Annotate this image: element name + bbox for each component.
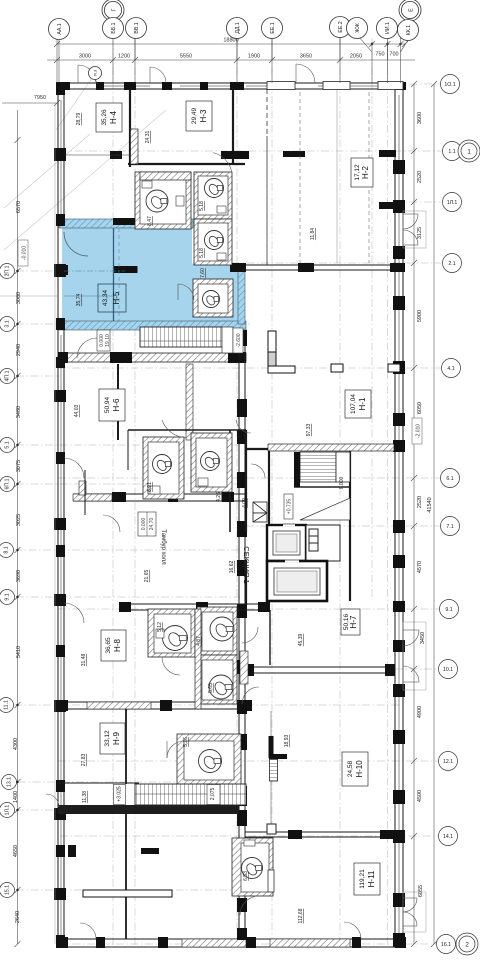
vertical grid axes (dash) [113, 38, 388, 945]
central spine wall x239-246 [239, 330, 245, 939]
svg-text:27,83: 27,83 [81, 754, 87, 767]
svg-text:11,38: 11,38 [82, 791, 88, 803]
svg-text:3480: 3480 [16, 406, 22, 418]
elevator 1 [267, 524, 306, 561]
svg-text:21,65: 21,65 [144, 570, 150, 583]
top total dimension line 18800 [47, 36, 415, 83]
svg-text:8,47: 8,47 [147, 216, 153, 226]
svg-text:Н-8: Н-8 [113, 639, 122, 652]
H-10/H-11 divider line [270, 711, 272, 826]
bathroom B2 [194, 172, 232, 219]
left axis bubbles [0, 264, 17, 898]
svg-text:700: 700 [389, 52, 398, 58]
svg-text:4,09: 4,09 [242, 498, 248, 508]
H-6 right hatched wall [186, 364, 193, 440]
elevation box 0.000 blue room [97, 330, 111, 351]
svg-text:2640: 2640 [15, 911, 21, 923]
svg-text:1Л.1: 1Л.1 [447, 200, 458, 206]
svg-text:ЕЕ.1: ЕЕ.1 [270, 22, 276, 33]
svg-text:ББ.1: ББ.1 [111, 22, 117, 33]
door arcs top wall [78, 64, 333, 83]
top segment dimension line [47, 59, 415, 61]
wall H-2 left boundary [266, 89, 268, 136]
elevation box -0.010 left [18, 240, 28, 266]
svg-text:5,12: 5,12 [157, 622, 163, 632]
H-11 top wall y835 [245, 832, 394, 837]
bathroom B4 in H-5 [178, 279, 233, 317]
room label H-11 [354, 863, 380, 895]
svg-text:3690: 3690 [16, 570, 22, 582]
svg-text:24,58: 24,58 [347, 760, 354, 777]
bathroom B8 [197, 607, 258, 655]
svg-text:28,79: 28,79 [76, 113, 82, 126]
svg-text:Н-1: Н-1 [358, 397, 367, 410]
svg-text:7950: 7950 [34, 95, 46, 101]
thick wall y810 [58, 805, 239, 814]
partition right of H-3 [232, 89, 234, 163]
corridor wall y509 [73, 494, 245, 501]
room label H-4 [96, 103, 122, 132]
svg-text:Н-5: Н-5 [112, 291, 121, 304]
svg-text:2940: 2940 [16, 344, 22, 356]
svg-text:3080: 3080 [16, 292, 22, 304]
svg-text:11,84: 11,84 [310, 228, 316, 240]
svg-text:0.000: 0.000 [141, 518, 147, 531]
right exterior wall [395, 83, 403, 947]
svg-text:7,60: 7,60 [200, 268, 206, 278]
door arcs interior corridor [86, 402, 265, 854]
top exterior wall [58, 83, 405, 89]
left 7950 dim [2, 100, 60, 106]
svg-text:5900: 5900 [417, 310, 423, 322]
H-9 left partition [125, 709, 127, 939]
svg-text:ЕЕ.2: ЕЕ.2 [338, 21, 344, 32]
svg-text:КК.1: КК.1 [406, 25, 412, 35]
svg-text:3000: 3000 [79, 54, 91, 60]
svg-text:Н-3: Н-3 [199, 109, 208, 122]
bathroom B10 [167, 734, 241, 786]
stair S1 [140, 327, 233, 353]
svg-text:3450: 3450 [420, 632, 426, 644]
svg-text:Н-2: Н-2 [361, 166, 370, 179]
svg-text:10.1: 10.1 [443, 667, 453, 673]
bottom exterior wall [58, 939, 405, 947]
svg-text:750: 750 [375, 52, 384, 58]
grid bubble Г (double) [102, 0, 124, 21]
vent shafts [253, 502, 267, 522]
room label H-8 [101, 630, 126, 661]
room label H-5 [64, 228, 126, 321]
svg-text:Н-7: Н-7 [349, 615, 358, 628]
H-6 left partition [117, 364, 119, 440]
bathroom B6 [191, 433, 232, 492]
wall y265 H-2 bottom / H-1 top [246, 265, 405, 270]
svg-text:6050: 6050 [417, 402, 423, 414]
svg-text:4500: 4500 [417, 790, 423, 802]
svg-text:44,03: 44,03 [74, 405, 80, 418]
svg-text:6,53: 6,53 [243, 871, 249, 881]
extension lines to wall [56, 64, 58, 83]
small area texts [74, 113, 345, 924]
svg-text:16.1: 16.1 [441, 942, 451, 948]
svg-text:5,65: 5,65 [208, 683, 214, 693]
elevation box 0.000/24,70 tambour [138, 512, 156, 536]
bathroom B11 [232, 838, 274, 915]
svg-text:6.1: 6.1 [446, 476, 453, 482]
svg-text:5.1: 5.1 [5, 441, 11, 448]
svg-text:4П.1: 4П.1 [5, 370, 11, 381]
svg-text:3650: 3650 [300, 54, 312, 60]
wall under stairs y358 [58, 353, 246, 362]
room label H-10 [342, 752, 368, 786]
svg-text:ДД.1: ДД.1 [235, 22, 241, 33]
kitchen counter H-1 [268, 331, 400, 373]
svg-text:1900: 1900 [248, 54, 260, 60]
svg-text:2520: 2520 [417, 496, 423, 508]
service room right of elevator 1 [306, 525, 340, 561]
svg-text:9.1: 9.1 [5, 593, 11, 600]
grid bubble Е (double) [399, 0, 421, 21]
misc stub walls blue room [55, 265, 68, 275]
svg-text:6055: 6055 [418, 885, 424, 897]
bottom wall piers [56, 937, 406, 948]
svg-text:11.1: 11.1 [4, 700, 10, 710]
svg-text:43,34: 43,34 [102, 289, 109, 306]
svg-text:Н-6: Н-6 [112, 398, 121, 411]
svg-text:-2.600: -2.600 [236, 333, 242, 347]
svg-text:6П.1: 6П.1 [5, 478, 11, 489]
svg-text:35,26: 35,26 [101, 109, 108, 126]
top wall piers [56, 82, 406, 90]
svg-text:107,04: 107,04 [350, 394, 357, 414]
svg-text:2050: 2050 [350, 54, 362, 60]
hatched wall segment above bathroom B1 [140, 172, 191, 180]
svg-text:5550: 5550 [180, 54, 192, 60]
svg-text:+0.735: +0.735 [287, 499, 293, 515]
room label H-3 [186, 101, 212, 131]
elevation box -2.010 right [412, 418, 422, 444]
door arc above B5 [160, 420, 188, 438]
stair S3 (core) [294, 452, 350, 520]
svg-text:50,16: 50,16 [343, 613, 350, 630]
hatched partition segment x131 [131, 129, 139, 164]
right axis bubbles [437, 75, 480, 956]
room label H-2 [351, 158, 373, 187]
svg-text:35,74: 35,74 [76, 294, 82, 307]
svg-text:119,21: 119,21 [359, 869, 366, 889]
svg-text:6,91: 6,91 [147, 482, 153, 492]
elevation box +0.735 [284, 494, 293, 519]
elevator 2 [267, 560, 327, 601]
svg-text:5,26: 5,26 [183, 737, 189, 747]
svg-text:7.1: 7.1 [446, 524, 453, 530]
bathroom B9 [197, 655, 259, 704]
svg-text:-2.010: -2.010 [416, 424, 422, 438]
svg-text:29,49: 29,49 [191, 107, 198, 124]
svg-text:33,12: 33,12 [104, 730, 111, 747]
corridor wall x270 [269, 610, 271, 665]
bathroom B3 [194, 219, 232, 265]
hatched wall x195 bathrooms row3 [195, 609, 201, 709]
H-5 bottom insulated wall (hatch) [59, 321, 246, 330]
svg-text:3.1: 3.1 [5, 320, 11, 327]
svg-text:0.000: 0.000 [339, 477, 345, 490]
svg-text:17,12: 17,12 [354, 164, 361, 181]
counter bottom-left H-9/H-11 [83, 890, 172, 897]
svg-text:Н-4: Н-4 [109, 111, 118, 124]
svg-text:Н-11: Н-11 [367, 870, 376, 887]
svg-text:1: 1 [467, 149, 471, 156]
left wall piers [54, 83, 66, 947]
wall y702 [58, 702, 252, 709]
window sill lines H-2 [300, 92, 369, 263]
wall top of bathroom block row1 [128, 163, 245, 165]
svg-text:1200: 1200 [118, 54, 130, 60]
svg-text:8.1: 8.1 [4, 546, 10, 553]
svg-text:ИИ.1: ИИ.1 [385, 22, 391, 34]
pier at H-11 top wall [267, 824, 276, 834]
svg-text:97,33: 97,33 [306, 424, 312, 437]
svg-text:24,31: 24,31 [145, 131, 151, 144]
svg-text:15.1: 15.1 [5, 885, 11, 895]
svg-text:3600: 3600 [417, 112, 423, 124]
svg-text:112,68: 112,68 [298, 908, 304, 923]
wall y604 [119, 604, 270, 610]
wall top of bathrooms row2 [128, 429, 246, 431]
svg-text:18,93: 18,93 [284, 735, 290, 748]
svg-text:1400: 1400 [13, 791, 19, 803]
svg-text:4,25: 4,25 [216, 492, 222, 502]
H-5 right wall hatch [238, 264, 245, 324]
svg-text:36,65: 36,65 [105, 637, 112, 654]
svg-text:3125: 3125 [417, 227, 423, 239]
svg-text:3025: 3025 [16, 514, 22, 526]
svg-text:ЖЖ: ЖЖ [355, 23, 361, 33]
svg-text:45,39: 45,39 [298, 634, 304, 647]
top wall window sills right part [267, 82, 403, 90]
partition H-4 / H-3 [128, 89, 337, 265]
svg-text:12.1: 12.1 [443, 759, 453, 765]
corridor line y783 [58, 782, 139, 784]
svg-text:Я.3: Я.3 [93, 69, 98, 76]
svg-text:2.1: 2.1 [448, 261, 455, 267]
svg-text:6570: 6570 [16, 201, 22, 213]
stair core outer walls [246, 430, 350, 605]
bathroom B5 [143, 437, 184, 499]
svg-text:1О.1: 1О.1 [444, 82, 455, 88]
elevation box -2.600 [233, 328, 243, 353]
svg-text:5410: 5410 [16, 646, 22, 658]
room label H-7 [341, 609, 360, 635]
svg-text:1.1: 1.1 [448, 149, 455, 155]
bottom wall insulated hatch segments [182, 939, 246, 947]
svg-text:24,70: 24,70 [149, 518, 155, 531]
tambour walls [85, 430, 230, 532]
svg-text:2П.1: 2П.1 [5, 265, 11, 276]
svg-text:2520: 2520 [417, 171, 423, 183]
svg-text:2,075: 2,075 [210, 788, 216, 801]
top axis bubbles row [49, 17, 419, 80]
left exterior wall [58, 83, 64, 947]
room label H-1 [345, 390, 371, 418]
room H-5 highlighted area (blue) [62, 221, 244, 324]
svg-text:16,62: 16,62 [229, 561, 235, 574]
svg-text:Н-10: Н-10 [355, 760, 364, 778]
H-10 T wall element [269, 736, 288, 759]
svg-text:Тамбур холл: Тамбур холл [160, 529, 166, 565]
svg-text:1Л.1: 1Л.1 [5, 805, 11, 816]
svg-text:31,48: 31,48 [81, 654, 87, 667]
svg-text:АА.1: АА.1 [57, 23, 63, 34]
stair S2 [114, 784, 247, 805]
wall stubs row y151 (H-4 bottom) [110, 151, 249, 159]
right dimension columns [411, 81, 437, 947]
door arc lower-left room [77, 338, 97, 358]
left dimension column [15, 110, 21, 947]
svg-text:4650: 4650 [13, 845, 19, 857]
svg-text:-0.010: -0.010 [22, 246, 28, 260]
H-5 top insulated wall (blue hatch) [59, 219, 193, 228]
svg-text:+3.025: +3.025 [117, 786, 123, 802]
H-3 door arc to corridor [208, 153, 238, 180]
room label H-9 [100, 723, 125, 754]
svg-text:4570: 4570 [417, 561, 423, 573]
svg-text:5,18: 5,18 [199, 248, 205, 258]
svg-text:19,10: 19,10 [105, 334, 111, 347]
door arc into H-5 [64, 232, 88, 256]
svg-text:41540: 41540 [427, 497, 433, 512]
svg-text:4,87: 4,87 [196, 636, 202, 646]
bubble leader lines top [59, 23, 410, 84]
svg-text:2: 2 [465, 942, 469, 949]
left extension vertical line [54, 103, 56, 944]
door arcs right wall (balconies) [386, 232, 422, 250]
svg-text:Г: Г [112, 8, 118, 11]
svg-text:4900: 4900 [417, 706, 423, 718]
svg-text:3075: 3075 [16, 460, 22, 472]
svg-text:СЕКЦИЯ 1: СЕКЦИЯ 1 [242, 546, 251, 583]
svg-text:4300: 4300 [13, 738, 19, 750]
room label H-6 [99, 389, 125, 421]
svg-text:Е: Е [409, 8, 415, 12]
svg-text:50,94: 50,94 [104, 396, 111, 413]
door arcs left wall [62, 390, 84, 754]
svg-text:14.1: 14.1 [443, 834, 453, 840]
H-10 shaft striped box [270, 759, 278, 781]
bathroom B7 [148, 609, 195, 675]
bathroom B1 [135, 172, 191, 229]
svg-text:9.1: 9.1 [445, 607, 452, 613]
svg-text:13.1: 13.1 [7, 777, 13, 787]
wall H-7/H-10 boundary y670 [246, 667, 395, 673]
svg-text:ВВ.1: ВВ.1 [134, 22, 140, 33]
site boundary diagonals top-left [4, 78, 166, 250]
svg-text:4.1: 4.1 [447, 366, 454, 372]
H-1 bottom hatched wall [268, 444, 394, 451]
right wall piers [393, 160, 405, 947]
svg-text:5,18: 5,18 [199, 201, 205, 211]
wall stub on axis 1.1 [283, 151, 305, 157]
svg-text:Н-9: Н-9 [112, 732, 121, 745]
